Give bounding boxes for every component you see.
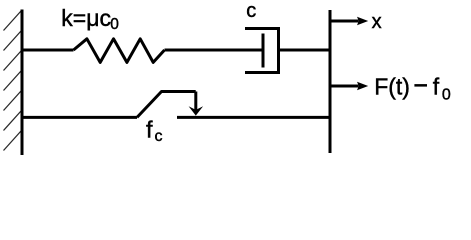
svg-text:0: 0 <box>442 86 451 103</box>
svg-text:x: x <box>372 11 382 33</box>
wall <box>21 10 24 156</box>
wire: friction to bar <box>177 116 330 119</box>
wall hatching <box>4 11 22 151</box>
friction element fc: diagonal step <box>137 92 196 118</box>
wire: damper to bar <box>279 49 331 52</box>
label k=uc0 <box>61 5 119 33</box>
arrow x <box>330 17 368 25</box>
wire: wall to friction step <box>22 116 137 119</box>
svg-text:0: 0 <box>110 16 119 33</box>
friction arrow down <box>189 92 204 116</box>
label fc <box>146 117 163 146</box>
damper piston plate <box>262 34 265 68</box>
damper cylinder c <box>245 29 279 73</box>
svg-text:k=μc: k=μc <box>61 5 111 31</box>
svg-text:f: f <box>146 117 153 143</box>
arrow F(t)-f0 <box>330 82 368 90</box>
wire: spring to damper piston <box>165 49 264 52</box>
svg-text:F(t): F(t) <box>374 73 410 99</box>
rigid bar (mass) <box>329 10 332 153</box>
svg-text:c: c <box>155 128 163 145</box>
wire: wall to spring <box>22 49 74 52</box>
svg-text:f: f <box>433 73 440 99</box>
spring k <box>74 39 165 63</box>
svg-text:c: c <box>246 0 256 22</box>
label F(t)-f0 <box>374 73 451 103</box>
